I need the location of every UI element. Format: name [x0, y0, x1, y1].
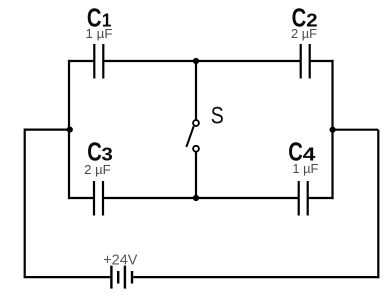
junction middle node — [193, 195, 199, 201]
wire right stub — [333, 129, 379, 131]
wire top rail middle segment — [103, 60, 300, 62]
capacitor C3 — [94, 181, 103, 216]
wire right inner vertical — [331, 60, 333, 199]
wire middle rail right segment — [308, 197, 334, 199]
wire switch bottom lead — [195, 152, 197, 198]
svg-text:+24V: +24V — [103, 253, 138, 269]
capacitor C1 — [94, 44, 103, 79]
wire bottom right segment — [133, 276, 379, 278]
capacitor C4 — [299, 181, 308, 216]
junction top node — [193, 58, 199, 64]
wire left stub — [25, 129, 69, 131]
wire switch top lead — [195, 61, 197, 120]
wire bottom left segment — [24, 276, 111, 278]
switch S — [186, 120, 199, 152]
wire left outer vertical — [24, 129, 26, 278]
svg-text:2 µF: 2 µF — [291, 26, 317, 41]
capacitor C2 — [301, 44, 310, 79]
svg-text:1 µF: 1 µF — [86, 26, 113, 41]
wire middle rail left segment — [68, 197, 94, 199]
svg-text:1 µF: 1 µF — [292, 161, 318, 176]
wire top rail left segment — [68, 60, 94, 62]
wire left inner vertical — [68, 60, 70, 199]
battery +24V — [111, 266, 132, 289]
wire top rail right segment — [310, 60, 334, 62]
junction right node — [330, 127, 336, 133]
junction left node — [67, 127, 73, 133]
wire right outer vertical — [377, 130, 379, 279]
wire middle rail middle segment — [103, 197, 299, 199]
svg-text:2 µF: 2 µF — [84, 162, 111, 177]
svg-text:S: S — [211, 102, 224, 129]
